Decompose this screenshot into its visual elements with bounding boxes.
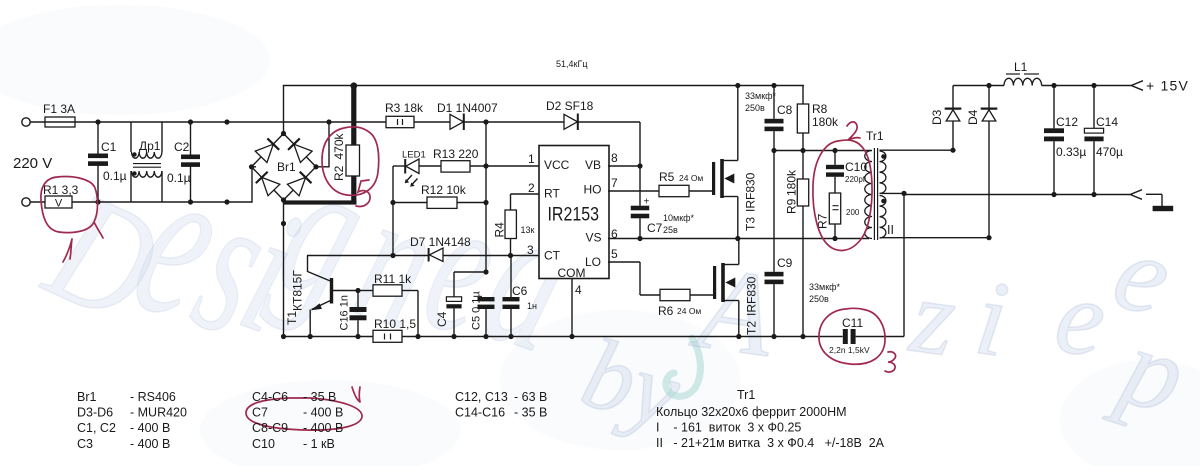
annotation digit 3 bbox=[885, 352, 896, 372]
transformer Tr1 secondary top winding bbox=[880, 151, 886, 193]
svg-text:R4: R4 bbox=[493, 222, 507, 238]
svg-text:CT: CT bbox=[544, 249, 561, 263]
wire mid rail divider bbox=[774, 150, 872, 152]
svg-text:R12 10k: R12 10k bbox=[421, 183, 467, 197]
diode D3 bbox=[952, 86, 954, 108]
svg-text:i: i bbox=[969, 258, 1015, 380]
capacitor C11 bbox=[843, 329, 848, 344]
svg-text:D7 1N4148: D7 1N4148 bbox=[410, 235, 471, 249]
wire ground stub bbox=[1146, 193, 1162, 195]
wire secondary top lead bbox=[880, 149, 954, 151]
svg-text:R9: R9 bbox=[785, 198, 799, 214]
wire bottom ground rail bbox=[284, 336, 374, 338]
annotation tick table bbox=[352, 387, 360, 402]
svg-text:HO: HO bbox=[584, 183, 602, 197]
svg-text:T1: T1 bbox=[285, 311, 299, 325]
svg-text:R13 220: R13 220 bbox=[433, 147, 479, 161]
svg-text:R5: R5 bbox=[659, 170, 675, 184]
capacitor C2 bbox=[188, 119, 193, 124]
node T1 emitter rail junction bbox=[308, 334, 313, 339]
svg-text:13к: 13к bbox=[521, 225, 535, 235]
annotation digit 2 bbox=[847, 122, 860, 140]
svg-text:C10: C10 bbox=[845, 160, 867, 174]
svg-text:D2 SF18: D2 SF18 bbox=[546, 99, 594, 113]
resistor R4 bbox=[511, 193, 541, 195]
resistor R13 bbox=[441, 161, 470, 172]
wire thick bridge minus horizontal bbox=[284, 200, 357, 204]
wire CT line bbox=[307, 255, 428, 257]
terminal input bottom bbox=[22, 198, 30, 206]
svg-text:z: z bbox=[903, 256, 963, 380]
svg-text:R8: R8 bbox=[812, 102, 828, 116]
wire VB pin bbox=[608, 165, 640, 167]
transformer Tr1 secondary bottom winding bbox=[880, 196, 886, 238]
svg-text:Кольцо 32х20х6 феррит 2000НМ: Кольцо 32х20х6 феррит 2000НМ bbox=[656, 405, 847, 419]
resistor R10 bbox=[373, 330, 402, 342]
svg-text:24 Ом: 24 Ом bbox=[677, 306, 701, 316]
wire bridge minus down bbox=[283, 200, 285, 337]
svg-text:- 400 В: - 400 В bbox=[130, 437, 170, 451]
diode D7 bbox=[428, 248, 430, 262]
svg-text:220pf: 220pf bbox=[845, 175, 866, 184]
capacitor C6 bbox=[510, 256, 512, 298]
wire output rail after L1 bbox=[1042, 85, 1131, 87]
svg-text:COM: COM bbox=[558, 266, 586, 280]
wire LED branch vertical bbox=[392, 166, 394, 256]
svg-text:C4-C6: C4-C6 bbox=[252, 390, 288, 404]
annotation circle 5 around R2 bbox=[322, 127, 379, 195]
svg-text:3: 3 bbox=[527, 243, 534, 257]
wire output top rail bbox=[953, 85, 1004, 87]
wire AC bottom to bridge left vertex bbox=[251, 167, 253, 203]
svg-text:0.33µ: 0.33µ bbox=[1056, 145, 1086, 159]
svg-text:R6: R6 bbox=[658, 304, 674, 318]
svg-text:V: V bbox=[55, 198, 63, 210]
wire thick R2 vertical bbox=[351, 86, 356, 203]
bridge diode top-right bbox=[294, 144, 312, 162]
svg-text:200: 200 bbox=[846, 208, 860, 217]
svg-text:F1 3A: F1 3A bbox=[43, 102, 75, 116]
svg-text:D3: D3 bbox=[930, 109, 944, 125]
annotation circle 2 around C10 R7 bbox=[813, 140, 872, 250]
node R11 right rail junction bbox=[415, 334, 420, 339]
resistor R9 bbox=[802, 151, 804, 180]
node thick wire top junction bbox=[350, 82, 357, 89]
svg-text:51,4кГц: 51,4кГц bbox=[556, 59, 587, 69]
svg-text:Др1: Др1 bbox=[139, 139, 161, 153]
svg-text:1: 1 bbox=[528, 152, 535, 166]
annotation digit 1 bbox=[63, 239, 72, 262]
svg-text:33мкф*: 33мкф* bbox=[745, 91, 777, 101]
svg-text:C6: C6 bbox=[512, 284, 528, 298]
wire LO pin bbox=[608, 261, 640, 263]
wire AC top to bridge right vertex bbox=[326, 119, 331, 124]
svg-text:D1 1N4007: D1 1N4007 bbox=[437, 101, 498, 115]
svg-text:2: 2 bbox=[528, 181, 535, 195]
svg-text:R2: R2 bbox=[332, 165, 346, 181]
diode D2 bbox=[564, 114, 578, 129]
svg-text:10мкф*: 10мкф* bbox=[663, 213, 695, 223]
svg-text:R3 18k: R3 18k bbox=[385, 101, 424, 115]
svg-text:250в: 250в bbox=[809, 294, 829, 304]
svg-text:LED1: LED1 bbox=[402, 150, 426, 161]
svg-text:C8: C8 bbox=[777, 103, 793, 117]
node R13-VCC junction bbox=[483, 163, 488, 168]
annotation circle 1 around R1 bbox=[41, 177, 103, 238]
svg-text:- 1 кВ: - 1 кВ bbox=[303, 437, 335, 451]
svg-text:33мкф*: 33мкф* bbox=[809, 282, 841, 292]
svg-text:5: 5 bbox=[611, 247, 618, 261]
svg-text:220 V: 220 V bbox=[13, 155, 52, 172]
svg-text:C8-C9: C8-C9 bbox=[252, 421, 288, 435]
svg-text:180k: 180k bbox=[785, 169, 799, 196]
svg-text:Tr1: Tr1 bbox=[866, 129, 884, 143]
node C4-C5 top junction bbox=[483, 269, 488, 274]
bridge diode bottom-right bbox=[287, 177, 305, 195]
capacitor C12 bbox=[1053, 86, 1055, 129]
node R1-C1 junction bbox=[95, 199, 100, 204]
svg-text:VS: VS bbox=[585, 231, 601, 245]
svg-text:- 63 В: - 63 В bbox=[514, 390, 547, 404]
svg-text:- 35 В: - 35 В bbox=[514, 406, 547, 420]
bridge diode bottom-left bbox=[262, 177, 280, 195]
node R12 dots bbox=[390, 200, 395, 205]
svg-text:IR2153: IR2153 bbox=[548, 204, 600, 226]
wire COM pin 4 bbox=[571, 279, 573, 337]
wire secondary center tap bbox=[880, 192, 905, 194]
resistor R11 bbox=[358, 290, 373, 292]
svg-text:0.1µ: 0.1µ bbox=[103, 169, 127, 183]
capacitor C14 bbox=[1093, 86, 1095, 129]
svg-text:C14: C14 bbox=[1096, 115, 1118, 129]
svg-text:КТ815Г: КТ815Г bbox=[291, 270, 305, 311]
fuse F1 bbox=[45, 117, 75, 127]
resistor R5 bbox=[608, 190, 659, 192]
watermark word Aziep bbox=[684, 208, 1199, 439]
svg-text:C12, C13: C12, C13 bbox=[455, 390, 508, 404]
capacitor C5 bbox=[478, 297, 495, 301]
svg-text:- 400 В: - 400 В bbox=[130, 421, 170, 435]
svg-text:D3-D6: D3-D6 bbox=[77, 406, 113, 420]
svg-text:C1, C2: C1, C2 bbox=[77, 421, 116, 435]
svg-text:IRF830: IRF830 bbox=[744, 172, 758, 212]
inductor Dr1 bottom winding bbox=[130, 171, 132, 202]
LED LED1 emission arrows bbox=[406, 175, 412, 182]
svg-text:250в: 250в bbox=[745, 103, 765, 113]
svg-text:R11 1k: R11 1k bbox=[374, 272, 412, 286]
svg-text:LO: LO bbox=[585, 255, 601, 269]
wire AC top rail bbox=[30, 121, 640, 123]
svg-text:C7: C7 bbox=[647, 221, 663, 235]
op-amp U1 IR2153 box bbox=[539, 146, 609, 279]
svg-text:L1: L1 bbox=[1014, 60, 1028, 74]
annotation digit 5 bbox=[356, 180, 370, 206]
svg-text:8: 8 bbox=[611, 151, 618, 165]
svg-text:Br1: Br1 bbox=[277, 160, 296, 174]
svg-text:1н: 1н bbox=[527, 301, 537, 311]
svg-text:C14-C16: C14-C16 bbox=[455, 406, 505, 420]
svg-text:VB: VB bbox=[585, 158, 601, 172]
output arrow ground bbox=[1130, 190, 1142, 200]
capacitor C16 bbox=[357, 291, 359, 308]
parts table bbox=[77, 388, 885, 451]
svg-text:4: 4 bbox=[575, 283, 582, 297]
ground bbox=[1153, 206, 1174, 211]
svg-text:C3: C3 bbox=[77, 437, 93, 451]
svg-text:- MUR420: - MUR420 bbox=[130, 406, 187, 420]
bridge vertex dots bbox=[281, 131, 286, 136]
bridge diode top-left bbox=[255, 144, 273, 162]
wire top DC rail bbox=[283, 85, 804, 87]
LED LED1 bbox=[393, 165, 405, 167]
node AC dots bbox=[224, 119, 229, 124]
svg-text:+ 15V: + 15V bbox=[1146, 78, 1189, 94]
svg-text:C16 1n: C16 1n bbox=[339, 295, 351, 330]
svg-text:- 400 В: - 400 В bbox=[303, 406, 343, 420]
resistor R2 bbox=[346, 145, 360, 176]
svg-text:II: II bbox=[887, 223, 894, 237]
svg-text:470µ: 470µ bbox=[1096, 145, 1123, 159]
svg-text:C10: C10 bbox=[252, 437, 275, 451]
inductor L1 bbox=[1004, 78, 1042, 85]
svg-text:T2: T2 bbox=[745, 321, 759, 335]
svg-text:470k: 470k bbox=[332, 132, 346, 159]
svg-text:180k: 180k bbox=[812, 115, 839, 129]
terminal input top bbox=[22, 118, 30, 126]
svg-text:RT: RT bbox=[544, 187, 560, 201]
svg-text:VCC: VCC bbox=[544, 158, 570, 172]
diode D1 bbox=[450, 114, 464, 129]
capacitor C10 bbox=[832, 148, 837, 153]
node F1-C1 junction bbox=[95, 119, 100, 124]
resistor R12 bbox=[393, 202, 427, 204]
wire VCC feed vertical bbox=[485, 122, 487, 272]
annotation circle table C7 bbox=[246, 398, 362, 430]
bridge rectifier Br1 diamond bbox=[252, 134, 317, 201]
annotation circle 3 around C11 bbox=[819, 308, 885, 364]
transistor T1 bbox=[330, 278, 333, 304]
capacitor C9 bbox=[773, 151, 775, 272]
resistor R6 bbox=[660, 289, 690, 300]
svg-text:C4: C4 bbox=[435, 311, 449, 327]
svg-text:Br1: Br1 bbox=[77, 390, 97, 404]
svg-text:C2: C2 bbox=[174, 140, 190, 154]
svg-text:- 35 В: - 35 В bbox=[303, 390, 336, 404]
capacitor C7 bbox=[639, 166, 641, 206]
svg-text:C1: C1 bbox=[101, 140, 117, 154]
wire secondary bottom lead bbox=[880, 237, 990, 239]
svg-text:IRF830: IRF830 bbox=[745, 276, 759, 316]
inductor Dr1 top winding bbox=[130, 122, 132, 152]
inductor Dr1 core bbox=[133, 163, 161, 165]
resistor R1 bbox=[45, 196, 72, 208]
wire output ground rail bbox=[904, 194, 1130, 196]
resistor R7 bbox=[829, 193, 840, 224]
transformer Tr1 core bbox=[873, 148, 875, 240]
svg-text:R10 1,5: R10 1,5 bbox=[374, 317, 416, 331]
svg-text:C5 0.1µ: C5 0.1µ bbox=[471, 291, 483, 330]
svg-text:C7: C7 bbox=[252, 406, 268, 420]
node T1 base junction bbox=[355, 288, 360, 293]
svg-text:2,2n 1,5kV: 2,2n 1,5kV bbox=[829, 345, 870, 355]
svg-text:0.1µ: 0.1µ bbox=[167, 171, 191, 185]
transistor T2 bbox=[713, 266, 716, 299]
wire D2 to VB bootstrap bbox=[639, 122, 641, 166]
svg-text:C11: C11 bbox=[842, 316, 863, 330]
svg-text:T3: T3 bbox=[744, 217, 758, 231]
diode D4 bbox=[988, 86, 990, 108]
output arrow plus 15V bbox=[1131, 81, 1143, 91]
resistor R3 bbox=[386, 116, 414, 127]
transformer Tr1 primary winding bbox=[865, 151, 872, 239]
svg-text:C9: C9 bbox=[777, 256, 793, 270]
svg-text:R1 3,3: R1 3,3 bbox=[43, 183, 79, 197]
svg-text:+: + bbox=[644, 197, 650, 208]
capacitor C8 bbox=[771, 83, 776, 88]
svg-text:I - 161 виток 3 х Ф0.25: I - 161 виток 3 х Ф0.25 bbox=[656, 421, 801, 435]
node D1-VCC feed junction bbox=[483, 119, 488, 124]
svg-text:C12: C12 bbox=[1056, 115, 1078, 129]
wire VS rail bbox=[608, 238, 869, 240]
svg-text:25в: 25в bbox=[663, 225, 678, 235]
svg-text:II - 21+21м витка 3 х Ф0.4: II - 21+21м витка 3 х Ф0.4 +/-18В 2А bbox=[656, 436, 885, 450]
svg-text:Tr1: Tr1 bbox=[737, 388, 755, 402]
capacitor C4 bbox=[453, 308, 455, 336]
transistor T3 bbox=[712, 162, 715, 195]
wire bridge plus up to top rail bbox=[283, 86, 285, 134]
capacitor C1 bbox=[97, 122, 99, 154]
svg-text:24 Ом: 24 Ом bbox=[679, 173, 703, 183]
svg-text:7: 7 bbox=[611, 176, 618, 190]
watermark teal swirl bbox=[666, 338, 700, 396]
node D7 line dots bbox=[390, 253, 395, 258]
svg-text:D4: D4 bbox=[966, 109, 980, 125]
resistor R8 bbox=[802, 86, 804, 105]
svg-text:- RS406: - RS406 bbox=[130, 390, 176, 404]
svg-text:- 400 В: - 400 В bbox=[303, 421, 343, 435]
wire AC bottom rail bbox=[30, 201, 252, 203]
